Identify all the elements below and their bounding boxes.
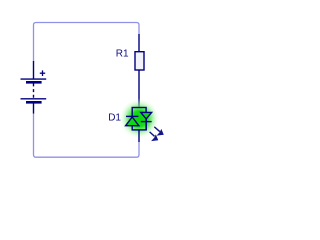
LED D1 body rectangle <box>132 108 146 130</box>
LED D1 green glow <box>119 98 160 139</box>
LED D1 right diode cathode bar <box>141 121 152 123</box>
battery B1 cell1 long positive plate <box>21 78 47 80</box>
battery B1 cell2 short negative plate <box>26 101 42 104</box>
resistor R1 top lead pin 1 <box>138 34 140 52</box>
LED D1 light emission arrow 1 <box>154 127 163 135</box>
resistor R1 bottom lead pin 2 to LED D1 anode <box>138 70 140 108</box>
battery B1 bottom lead <box>33 104 35 114</box>
wire W1: battery positive terminal up and across top to resistor R1 <box>34 23 140 62</box>
battery B1 inter-cell dashed link <box>33 83 35 98</box>
LED D1 bottom lead pin 2 <box>138 130 140 142</box>
wire W2: LED D1 cathode down and across bottom back to battery negative <box>34 113 140 157</box>
LED D1 left diode triangle (pointing up, lit green fill) <box>126 117 139 126</box>
LED D1 right diode apex-to-bottom lead <box>145 119 147 130</box>
battery B1 <box>21 61 47 114</box>
svg-text:D1: D1 <box>108 113 121 124</box>
LED D1 left diode cathode bar <box>126 115 138 117</box>
LED D1 right diode triangle (pointing down, lit green fill) <box>141 112 152 119</box>
LED D1 light emission arrow 2 <box>150 132 158 141</box>
battery B1 plus polarity sign <box>40 70 45 76</box>
resistor R1 <box>135 34 144 108</box>
battery B1 cell1 short negative plate <box>26 81 42 84</box>
battery B1 top lead <box>33 61 35 79</box>
battery B1 cell2 long positive plate <box>21 98 47 100</box>
resistor R1 body <box>135 52 144 70</box>
LED D1 <box>126 108 152 143</box>
svg-text:R1: R1 <box>116 49 129 60</box>
